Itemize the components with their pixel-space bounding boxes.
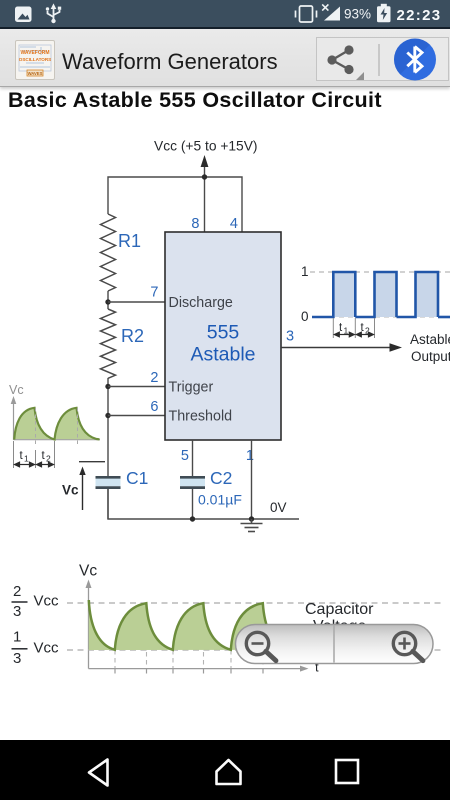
toolbar — [0, 29, 450, 87]
battery charging icon — [377, 4, 391, 22]
gallery notification icon — [15, 7, 32, 23]
svg-text:0V: 0V — [270, 500, 287, 515]
resistor R1 — [101, 214, 142, 291]
svg-text:1: 1 — [344, 326, 349, 336]
svg-text:Vc: Vc — [9, 383, 24, 397]
node Astable Output label — [410, 332, 450, 364]
wire C1 to rail — [107, 489, 109, 519]
wire pin 2 trigger — [108, 386, 165, 388]
wire C2 to rail — [192, 489, 194, 519]
inset Vc label — [9, 383, 24, 397]
capacitor C1 — [96, 468, 149, 488]
bottom chart capacitor voltage curve — [89, 600, 289, 650]
usb connected icon — [46, 5, 61, 24]
wire pin 1 down — [251, 440, 253, 519]
svg-text:3: 3 — [286, 329, 294, 345]
ground — [241, 519, 263, 532]
svg-text:7: 7 — [150, 285, 158, 301]
svg-text:R1: R1 — [118, 231, 141, 251]
wire bottom 0V rail — [108, 489, 299, 519]
toolbar title — [62, 49, 278, 75]
toolbar separator line — [0, 27, 450, 29]
junction dot pin7 — [105, 299, 110, 304]
zoom out magnifier — [246, 632, 276, 660]
wire pin 6 threshold — [108, 415, 165, 417]
svg-text:Astable: Astable — [410, 332, 450, 347]
svg-text:0.01µF: 0.01µF — [198, 492, 242, 508]
pin 5 label — [181, 448, 189, 464]
svg-text:3: 3 — [13, 603, 21, 620]
junction dot pin1 rail — [249, 516, 254, 521]
zoom in magnifier — [393, 632, 423, 660]
pin 1 label — [246, 448, 254, 464]
svg-text:4: 4 — [230, 216, 238, 232]
inset t1 t2 interval markers — [14, 441, 55, 468]
wire pin 5 down — [192, 440, 194, 477]
pin 4 label — [230, 216, 238, 232]
share icon — [327, 45, 353, 74]
svg-text:2: 2 — [365, 326, 370, 336]
recents button — [336, 760, 358, 783]
junction dot pin6 — [105, 413, 110, 418]
node Vcc label — [154, 139, 258, 154]
bottom chart 1/3 Vcc dashed level — [12, 629, 444, 668]
home button — [217, 760, 241, 784]
svg-text:8: 8 — [191, 216, 199, 232]
app icon — [15, 40, 55, 80]
resistor R2 — [101, 309, 145, 378]
svg-text:2: 2 — [13, 583, 21, 600]
back button — [89, 760, 108, 786]
toolbar action buttons group — [316, 37, 449, 81]
svg-text:Vc: Vc — [79, 563, 97, 580]
Vc arrow at C1 — [62, 462, 105, 510]
svg-text:0: 0 — [301, 309, 309, 324]
svg-text:3: 3 — [13, 650, 21, 667]
pin 7 label — [150, 285, 158, 301]
svg-text:555: 555 — [207, 322, 240, 344]
svg-text:Threshold: Threshold — [169, 409, 233, 425]
junction dot pin2 — [105, 384, 110, 389]
bottom chart 2/3 Vcc dashed level — [12, 583, 444, 620]
pin 2 label — [150, 370, 158, 386]
svg-text:6: 6 — [150, 399, 158, 415]
bottom chart dashed transition verticals — [115, 604, 263, 668]
bottom chart axes — [89, 585, 304, 669]
svg-text:t: t — [42, 450, 46, 462]
inset Vc waveform axes — [14, 401, 101, 440]
svg-text:Discharge: Discharge — [169, 295, 233, 311]
pin 3 label — [286, 329, 294, 345]
svg-text:2: 2 — [46, 454, 51, 464]
junction dot C2 rail — [190, 516, 195, 521]
wire pin 7 discharge — [108, 301, 165, 303]
bluetooth button — [394, 38, 436, 80]
output waveform dashed level 1 line — [301, 264, 450, 279]
pin name Trigger — [169, 380, 214, 396]
svg-text:R2: R2 — [121, 326, 144, 346]
pin name Discharge — [169, 295, 233, 311]
svg-text:1: 1 — [246, 448, 254, 464]
svg-text:t: t — [361, 322, 365, 334]
svg-text:C2: C2 — [210, 468, 232, 488]
wire top rail — [108, 177, 242, 232]
pin 8 label — [191, 216, 199, 232]
svg-text:2: 2 — [150, 370, 158, 386]
svg-text:Vcc: Vcc — [34, 593, 60, 610]
inset dashed peak lines — [36, 408, 78, 447]
divider — [378, 44, 380, 76]
output t1 t2 markers — [333, 318, 374, 338]
zoom control pill — [236, 625, 434, 664]
node 0V label — [270, 500, 287, 515]
svg-text:1: 1 — [13, 629, 21, 646]
pin 6 label — [150, 399, 158, 415]
svg-text:5: 5 — [181, 448, 189, 464]
svg-text:Output: Output — [411, 349, 450, 364]
svg-text:Vcc: Vcc — [34, 640, 60, 657]
navigation bar — [0, 740, 450, 800]
svg-text:t: t — [20, 450, 24, 462]
output square wave — [312, 272, 450, 317]
svg-text:Vcc (+5 to +15V): Vcc (+5 to +15V) — [154, 139, 258, 154]
junction dot Vcc — [202, 174, 207, 179]
wire R2 down to C1 — [107, 378, 109, 477]
vibrate icon — [296, 6, 317, 22]
bottom chart Vc label — [79, 563, 97, 580]
bottom chart Capacitor Voltage caption — [305, 601, 374, 635]
status bar — [0, 0, 450, 27]
svg-text:Trigger: Trigger — [169, 380, 214, 396]
pin name Threshold — [169, 409, 233, 425]
dropdown corner triangle — [356, 72, 364, 80]
svg-text:Capacitor: Capacitor — [305, 601, 374, 618]
inset capacitor charge curves — [14, 408, 99, 440]
output waveform dashed 0 baseline — [301, 309, 450, 324]
svg-text:Vc: Vc — [62, 483, 79, 498]
op-amp U1 555 timer box — [165, 232, 281, 440]
wire R1 to R2 — [107, 291, 109, 309]
signal icon with x — [322, 4, 340, 20]
svg-text:C1: C1 — [126, 468, 148, 488]
capacitor C2 — [180, 468, 242, 508]
Vcc supply arrow — [201, 155, 209, 232]
svg-text:1: 1 — [301, 264, 309, 279]
wire pin 3 output with arrow — [281, 343, 402, 352]
svg-text:t: t — [339, 322, 343, 334]
svg-text:1: 1 — [24, 454, 29, 464]
bottom chart axis ticks — [115, 669, 263, 674]
svg-text:Astable: Astable — [190, 344, 255, 366]
page heading — [8, 88, 382, 113]
